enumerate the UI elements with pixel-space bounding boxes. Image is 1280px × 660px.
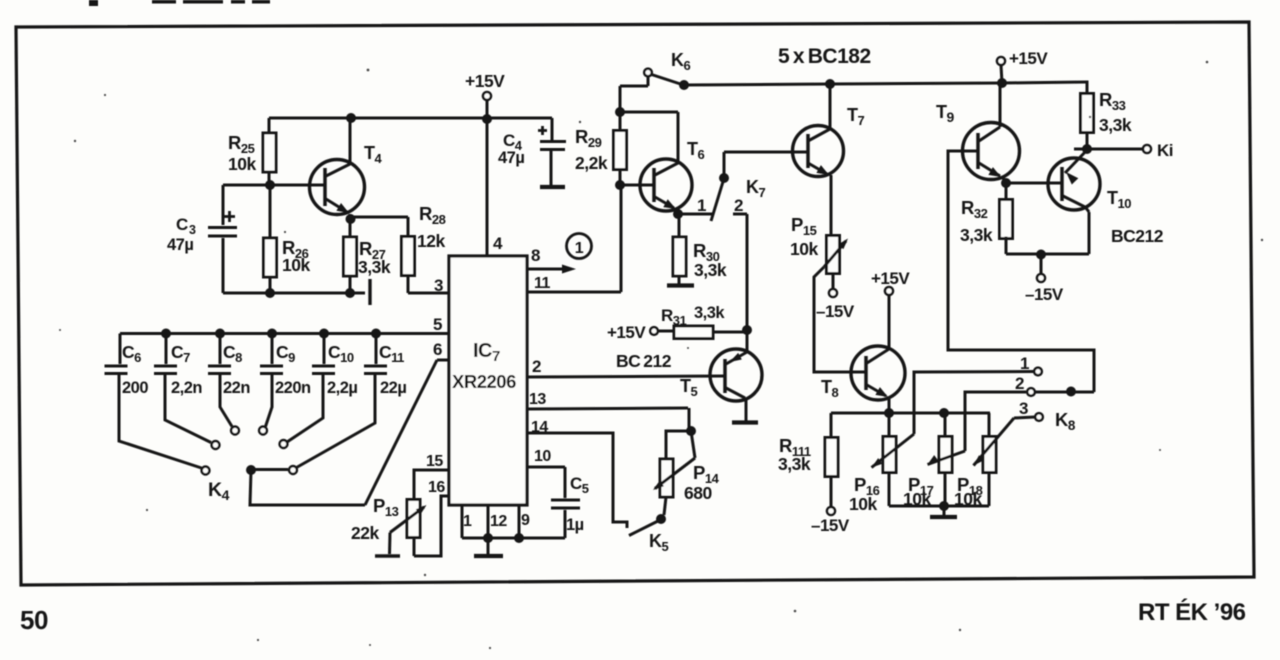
label R25 10k xyxy=(228,132,256,174)
svg-text:200: 200 xyxy=(122,379,148,397)
wire K4 common xyxy=(250,470,365,505)
resistor R28 xyxy=(402,237,415,294)
label R31 3.3k xyxy=(661,304,725,328)
svg-text:3: 3 xyxy=(189,223,196,237)
terminal K4 contact C7 xyxy=(212,441,220,449)
capacitor C3 xyxy=(208,185,270,293)
arrow P18 wiper xyxy=(974,418,1015,466)
wire T9 emitter to T10 base xyxy=(1006,182,1062,185)
wire -15V stub xyxy=(1040,255,1043,274)
terminal K4 contact C8 xyxy=(231,427,239,435)
resistor R27 xyxy=(344,219,357,293)
wire pin11 riser xyxy=(620,185,623,292)
svg-text:1µ: 1µ xyxy=(566,516,584,534)
label C11 value xyxy=(380,379,406,397)
wire collector T6 top xyxy=(620,111,678,114)
capacitor C7 xyxy=(154,366,177,374)
svg-text:2,2µ: 2,2µ xyxy=(327,379,357,397)
wire C7 bottom leg xyxy=(165,375,211,443)
wire pin13 riser xyxy=(688,408,691,431)
label P14 680 xyxy=(684,462,720,503)
arrow P17 wiper xyxy=(928,451,966,465)
wire pin 5 rail xyxy=(120,332,449,335)
label T4 xyxy=(364,143,383,166)
label T5 xyxy=(680,376,698,399)
wire pin 16 xyxy=(414,496,449,556)
capacitor C6 xyxy=(105,366,128,374)
label R30 3.3k xyxy=(693,240,727,280)
wire C8 top leg xyxy=(219,334,222,365)
label R33 3.3k xyxy=(1099,89,1132,135)
pin 4 label xyxy=(493,234,503,253)
label K7 1 xyxy=(697,196,706,215)
svg-text:3,3k: 3,3k xyxy=(1099,115,1132,135)
svg-text:1: 1 xyxy=(697,196,706,215)
svg-text:15: 15 xyxy=(426,453,443,470)
wire +15V stub xyxy=(1001,65,1002,83)
pin 9 label xyxy=(521,512,530,529)
arrow P13 wiper xyxy=(390,505,427,533)
node C10 top xyxy=(319,329,329,339)
wire pin 12 stub xyxy=(487,505,490,538)
label K8 xyxy=(1055,409,1076,433)
svg-text:+15V: +15V xyxy=(465,71,505,91)
svg-text:16: 16 xyxy=(428,479,445,496)
svg-text:2,2k: 2,2k xyxy=(575,153,608,173)
wire pin 1 stub xyxy=(461,505,464,538)
svg-text:3,3k: 3,3k xyxy=(694,260,727,280)
label P16 10k xyxy=(849,474,880,514)
terminal P15 -15V xyxy=(829,289,837,297)
node pin 12 xyxy=(483,533,493,543)
svg-text:10k: 10k xyxy=(790,239,818,259)
wire R31 right xyxy=(713,331,747,334)
label C4 47u xyxy=(498,131,524,167)
wire P14 top xyxy=(666,431,691,459)
pin 14 label xyxy=(531,419,548,436)
pin 1 label xyxy=(463,513,472,530)
terminal +15V (R31) xyxy=(650,327,658,335)
wire P18 wiper to K8-3 xyxy=(1014,417,1035,418)
terminal -15V (R111) xyxy=(827,507,835,515)
node K7 common xyxy=(719,173,729,183)
wire P17 wiper to K8-2 xyxy=(965,392,1026,451)
resistor R111 xyxy=(825,413,838,507)
node base T4 xyxy=(265,180,275,190)
potentiometer P14 xyxy=(660,459,673,515)
label C6 value xyxy=(122,379,148,397)
label T6 xyxy=(687,139,705,162)
svg-text:+15V: +15V xyxy=(1009,49,1048,68)
potentiometer P17 xyxy=(939,413,952,506)
resistor R29 xyxy=(614,112,627,185)
svg-text:4: 4 xyxy=(493,234,503,253)
transistor T6 xyxy=(640,112,692,214)
transistor T7 xyxy=(793,84,844,236)
terminal +15V (T9) xyxy=(997,57,1005,65)
svg-text:XR2206: XR2206 xyxy=(452,371,516,392)
terminal K4 contact C9 xyxy=(259,427,267,435)
node T6 emitter xyxy=(673,209,683,219)
label -15V (P15) xyxy=(816,302,855,321)
pin 5 label xyxy=(433,315,442,334)
node pot ground xyxy=(939,501,949,511)
label 5xBC182 xyxy=(778,45,871,68)
label R111 3.3k xyxy=(778,435,811,474)
terminal -15V (output) xyxy=(1037,274,1045,282)
capacitor C10 xyxy=(312,366,335,374)
svg-text:3,3k: 3,3k xyxy=(358,257,391,277)
svg-text:Ki: Ki xyxy=(1157,141,1173,160)
node K4 pivot xyxy=(246,465,256,475)
resistor R25 xyxy=(263,118,276,185)
label R28 12k xyxy=(417,203,446,251)
label K4 xyxy=(208,479,230,503)
label C9 value xyxy=(275,379,311,397)
label K7 xyxy=(746,177,766,200)
wire pin 13 xyxy=(527,408,688,409)
node T7 collector xyxy=(825,79,835,89)
svg-text:12k: 12k xyxy=(417,231,445,251)
svg-text:13: 13 xyxy=(529,391,546,408)
wire P13 wiper ground xyxy=(388,533,392,555)
caption RT EK 96 xyxy=(1138,598,1246,626)
label K7 2 xyxy=(734,196,743,215)
node T4 emitter xyxy=(346,214,356,224)
svg-text:C: C xyxy=(176,215,188,234)
pin 3 label xyxy=(434,276,443,295)
page background speckles xyxy=(89,0,270,6)
node C9 top xyxy=(267,329,277,339)
label R26 10k xyxy=(282,237,310,275)
pin 8 arrow xyxy=(527,265,576,274)
potentiometer P16 xyxy=(883,413,896,506)
terminator bar xyxy=(368,279,371,305)
terminal K4 contact C11 xyxy=(289,466,297,474)
svg-text:3,3k: 3,3k xyxy=(694,304,725,322)
label +15V (R31) xyxy=(607,323,646,342)
pin 12 label xyxy=(490,513,507,530)
wire K7 pole 2 xyxy=(733,214,747,330)
node K8 common xyxy=(1066,387,1076,397)
svg-text:47µ: 47µ xyxy=(498,149,524,167)
label P18 10k xyxy=(954,474,983,509)
label K8 2 xyxy=(1015,374,1024,393)
svg-text:11: 11 xyxy=(534,275,551,292)
potentiometer P18 xyxy=(983,413,996,506)
svg-text:RT ÉK ’96: RT ÉK ’96 xyxy=(1138,598,1246,626)
node T5 emitter xyxy=(742,325,752,335)
terminator bar T5 xyxy=(732,420,758,424)
label T9 xyxy=(936,102,955,125)
pin 6 label xyxy=(433,340,442,359)
wire C9 top leg xyxy=(271,334,274,365)
resistor R31 xyxy=(674,326,713,339)
label R27 3.3k xyxy=(358,238,391,277)
svg-text:50: 50 xyxy=(20,605,48,635)
label +15V (T9) xyxy=(1009,49,1048,68)
node R33 bottom xyxy=(1082,144,1092,154)
transistor T8 xyxy=(851,346,905,413)
label IC7 xyxy=(473,340,500,365)
label -15V (output) xyxy=(1025,285,1064,304)
wire K8 to T9 base xyxy=(948,151,1094,392)
label C7 xyxy=(171,342,190,365)
capacitor C4 xyxy=(538,118,566,187)
node T9 emitter xyxy=(1001,178,1011,188)
label C7 value xyxy=(171,379,202,397)
transistor T5 (PNP) xyxy=(710,330,762,421)
svg-text:BC212: BC212 xyxy=(1111,226,1164,246)
wire +15V main rail xyxy=(684,82,1086,85)
node marker circled 1 xyxy=(567,234,592,259)
svg-text:5: 5 xyxy=(433,315,442,334)
label T7 xyxy=(847,105,865,128)
svg-text:10k: 10k xyxy=(849,494,877,514)
svg-text:47µ: 47µ xyxy=(167,236,193,254)
label K8 3 xyxy=(1019,399,1028,418)
wire K8 common xyxy=(1035,391,1094,394)
node C8 top xyxy=(215,329,225,339)
pin 10 label xyxy=(534,448,551,465)
terminal K8 contact2 xyxy=(1027,388,1035,396)
label C6 xyxy=(122,342,141,365)
wire pin2 to T5 base xyxy=(527,376,725,377)
label R29 2.2k xyxy=(575,126,608,173)
transistor T10 (PNP) xyxy=(1048,150,1100,254)
node T4 collector xyxy=(346,113,356,123)
node K6 xyxy=(679,80,689,90)
svg-text:–15V: –15V xyxy=(816,302,855,321)
wire R31 left xyxy=(658,330,674,333)
label +15V (T8) xyxy=(871,269,910,288)
wire ground rail left xyxy=(223,292,365,295)
terminal +15V (T8) xyxy=(885,287,893,295)
terminal K8 contact1 xyxy=(1034,368,1042,376)
svg-text:BC 212: BC 212 xyxy=(616,351,672,371)
wire pin 11 xyxy=(527,291,621,294)
svg-text:1: 1 xyxy=(1020,354,1029,373)
node -15V tap xyxy=(1036,250,1046,260)
svg-text:12: 12 xyxy=(490,513,507,530)
node R29 top xyxy=(615,107,625,117)
wire R28 to pin3 xyxy=(408,292,449,295)
resistor R26 xyxy=(264,185,277,293)
svg-text:2: 2 xyxy=(1015,374,1024,393)
label C8 xyxy=(223,342,242,365)
svg-text:+15V: +15V xyxy=(607,323,646,342)
terminal +15V circle xyxy=(483,92,491,100)
svg-text:2: 2 xyxy=(734,196,743,215)
wire emitter rail xyxy=(831,412,990,415)
svg-text:–15V: –15V xyxy=(811,516,850,535)
label K6 xyxy=(671,50,691,73)
svg-text:10: 10 xyxy=(534,448,551,465)
svg-text:5 x BC182: 5 x BC182 xyxy=(778,45,871,68)
wire Ki xyxy=(1074,148,1143,151)
label T10 xyxy=(1107,188,1131,211)
svg-text:+15V: +15V xyxy=(871,269,910,288)
wire pin 15 xyxy=(414,470,449,500)
terminal K8 contact3 xyxy=(1035,413,1043,421)
svg-text:22n: 22n xyxy=(223,379,250,397)
svg-text:3: 3 xyxy=(1019,399,1028,418)
label C3 47u xyxy=(167,215,196,254)
terminal K4 contact C10 xyxy=(280,440,288,448)
pin 11 label xyxy=(534,275,551,292)
terminator bar R30 xyxy=(667,283,694,287)
pin 8 label xyxy=(531,246,540,265)
label C8 value xyxy=(223,379,250,397)
svg-text:1: 1 xyxy=(575,240,584,257)
wire K6 feed xyxy=(620,77,648,86)
node P14 top xyxy=(686,426,696,436)
wire +15V rail (T4 stage) xyxy=(269,117,552,120)
terminal K6 contact xyxy=(644,69,652,77)
terminal Ki xyxy=(1143,145,1151,153)
transistor T4 xyxy=(310,118,365,222)
pin 2 label xyxy=(532,357,541,376)
wire R29 branch xyxy=(619,86,622,112)
ground (IC) xyxy=(474,538,503,556)
resistor R32 xyxy=(1000,183,1013,254)
wire pin 6 diagonal xyxy=(365,360,437,505)
label T8 xyxy=(821,377,839,400)
wire pin 14 xyxy=(527,433,627,528)
svg-text:680: 680 xyxy=(684,483,712,503)
label P15 10k xyxy=(790,214,818,259)
svg-text:2,2n: 2,2n xyxy=(171,379,202,397)
arrow P15 wiper xyxy=(824,239,848,268)
switch K4 arm xyxy=(251,468,288,471)
node +15V rail T9 xyxy=(997,78,1007,88)
ground (pots) xyxy=(930,506,957,517)
svg-text:2: 2 xyxy=(532,357,541,376)
transistor T9 xyxy=(963,83,1020,183)
label BC212 (T10) xyxy=(1111,226,1164,246)
node pin 9 xyxy=(514,533,524,543)
wire P15 wiper down xyxy=(814,267,866,372)
wire pin 10 xyxy=(527,466,565,469)
wire base T4 xyxy=(270,184,325,187)
svg-text:22k: 22k xyxy=(351,523,379,543)
wire C11 bottom leg xyxy=(297,375,376,468)
label C9 xyxy=(276,342,295,365)
wire C11 top leg xyxy=(375,334,378,365)
svg-text:–15V: –15V xyxy=(1025,285,1064,304)
wire C6 top leg xyxy=(119,334,122,365)
wire C9 bottom leg xyxy=(266,375,273,427)
wire pin 9 stub xyxy=(518,505,521,538)
label +15V xyxy=(465,71,505,91)
terminal K4 contact C6 xyxy=(202,467,210,475)
label P13 22k xyxy=(351,495,399,543)
node T8 emitter xyxy=(884,408,894,418)
svg-text:6: 6 xyxy=(433,340,442,359)
arrow P16 wiper xyxy=(872,434,915,468)
potentiometer P13 xyxy=(407,500,420,557)
svg-text:9: 9 xyxy=(521,512,530,529)
node C7 top xyxy=(161,329,171,339)
node K5 common xyxy=(656,514,666,524)
capacitor C8 xyxy=(208,366,231,374)
svg-text:3,3k: 3,3k xyxy=(960,225,993,245)
wire C6 bottom leg xyxy=(119,375,202,468)
label BC212 (T5) xyxy=(616,351,672,371)
label XR2206 xyxy=(452,371,516,392)
label K5 xyxy=(649,531,669,554)
svg-text:22µ: 22µ xyxy=(380,379,406,397)
wire C8 bottom leg xyxy=(220,375,232,427)
capacitor C9 xyxy=(260,366,283,374)
svg-text:1: 1 xyxy=(463,513,472,530)
wire pin4 riser xyxy=(486,119,489,256)
capacitor C5 xyxy=(551,467,580,538)
wire emitter to R28 xyxy=(350,217,408,239)
svg-text:8: 8 xyxy=(531,246,540,265)
wire -15V rail (output) xyxy=(1006,253,1089,256)
svg-text:10k: 10k xyxy=(282,255,310,275)
resistor R33 xyxy=(1081,82,1094,149)
wire T6 base xyxy=(620,184,654,187)
wire C10 top leg xyxy=(323,334,326,365)
node C11 top xyxy=(371,329,381,339)
arrow P14 wiper xyxy=(653,431,695,490)
label C10 value xyxy=(327,379,357,397)
node T6 base xyxy=(615,180,625,190)
wire K7 pole 1 xyxy=(678,213,712,216)
wire bottom bus xyxy=(462,537,565,540)
capacitor C11 xyxy=(364,366,387,374)
switch K7 arm xyxy=(711,180,724,221)
wire C7 top leg xyxy=(165,334,168,365)
pin 16 label xyxy=(428,479,445,496)
pin 15 label xyxy=(426,453,443,470)
node R27 bottom xyxy=(345,288,355,298)
label R32 3.3k xyxy=(960,197,993,245)
IC U1 XR2206 body xyxy=(449,256,527,505)
pin 13 label xyxy=(529,391,546,408)
ground (P13) xyxy=(375,554,400,558)
wire T8 collector xyxy=(888,295,891,348)
resistor R30 xyxy=(673,214,686,284)
label K8 1 xyxy=(1020,354,1029,373)
potentiometer P15 xyxy=(827,236,840,290)
label C11 xyxy=(379,342,404,365)
svg-text:3,3k: 3,3k xyxy=(778,454,811,474)
wire P16 wiper to K8-1 xyxy=(914,372,1034,435)
svg-text:3: 3 xyxy=(434,276,443,295)
wire pot ground rail xyxy=(889,505,989,508)
wire C10 bottom leg xyxy=(287,375,323,442)
page number 50 xyxy=(20,605,48,635)
label P17 10k xyxy=(903,474,934,509)
svg-text:220n: 220n xyxy=(275,379,311,397)
wire K7 common to T7 xyxy=(724,152,807,178)
label -15V (R111) xyxy=(811,516,850,535)
label C10 xyxy=(328,342,354,365)
node P17 top xyxy=(939,408,949,418)
label Ki xyxy=(1157,141,1173,160)
node +15V terminal (C4 rail) xyxy=(482,100,492,124)
node R26 bottom xyxy=(265,288,275,298)
wire pin 6 xyxy=(437,359,449,362)
switch K6 arm xyxy=(652,75,683,85)
switch K5 arm xyxy=(629,521,659,536)
label C5 1u xyxy=(566,474,589,534)
svg-text:10k: 10k xyxy=(228,154,256,174)
